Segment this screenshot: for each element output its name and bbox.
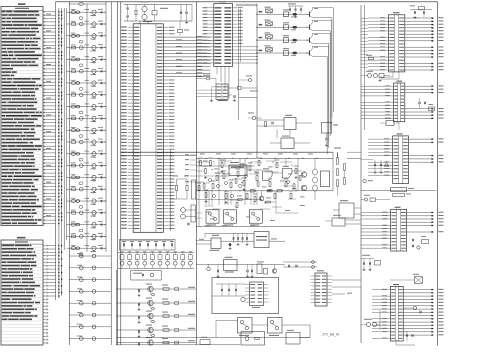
svg-text:J7X_EB_M: J7X_EB_M (322, 333, 339, 337)
